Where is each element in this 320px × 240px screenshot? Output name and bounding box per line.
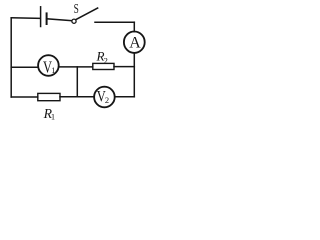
svg-text:S: S — [74, 2, 79, 17]
wire R1 to V2 — [60, 96, 94, 98]
wire switch to top-right corner — [95, 21, 134, 23]
wire ammeter to bottom-right corner — [133, 53, 135, 97]
resistor R2 — [93, 63, 114, 69]
wire junction drop x=77 — [76, 67, 78, 96]
wire battery to switch — [47, 19, 72, 21]
wire wall to V1 — [11, 66, 38, 68]
wire down to ammeter — [133, 22, 135, 31]
battery long plate — [40, 7, 42, 27]
svg-text:A: A — [129, 35, 141, 52]
svg-text:2: 2 — [104, 56, 108, 66]
switch contact circle — [72, 19, 76, 23]
battery short plate — [46, 13, 48, 24]
wire wall to R1 — [11, 96, 38, 98]
resistor R1 — [38, 93, 60, 100]
wire R2 to right wall — [114, 66, 134, 68]
voltmeter V1 circle — [38, 55, 59, 76]
wire V2 to bottom-right corner — [115, 96, 135, 98]
svg-text:2: 2 — [105, 95, 109, 105]
voltmeter V2 circle — [94, 87, 115, 108]
label R1 — [43, 106, 56, 121]
svg-text:1: 1 — [51, 112, 55, 122]
label V1 — [43, 58, 56, 77]
wire V1 to R2 — [59, 66, 93, 68]
wire top-left to battery — [11, 17, 40, 20]
label V2 — [97, 88, 109, 105]
svg-text:1: 1 — [51, 65, 55, 75]
switch blade — [76, 8, 98, 20]
ammeter U=A circle — [124, 32, 145, 53]
label R2 — [95, 49, 107, 65]
wire left wall — [10, 18, 12, 97]
